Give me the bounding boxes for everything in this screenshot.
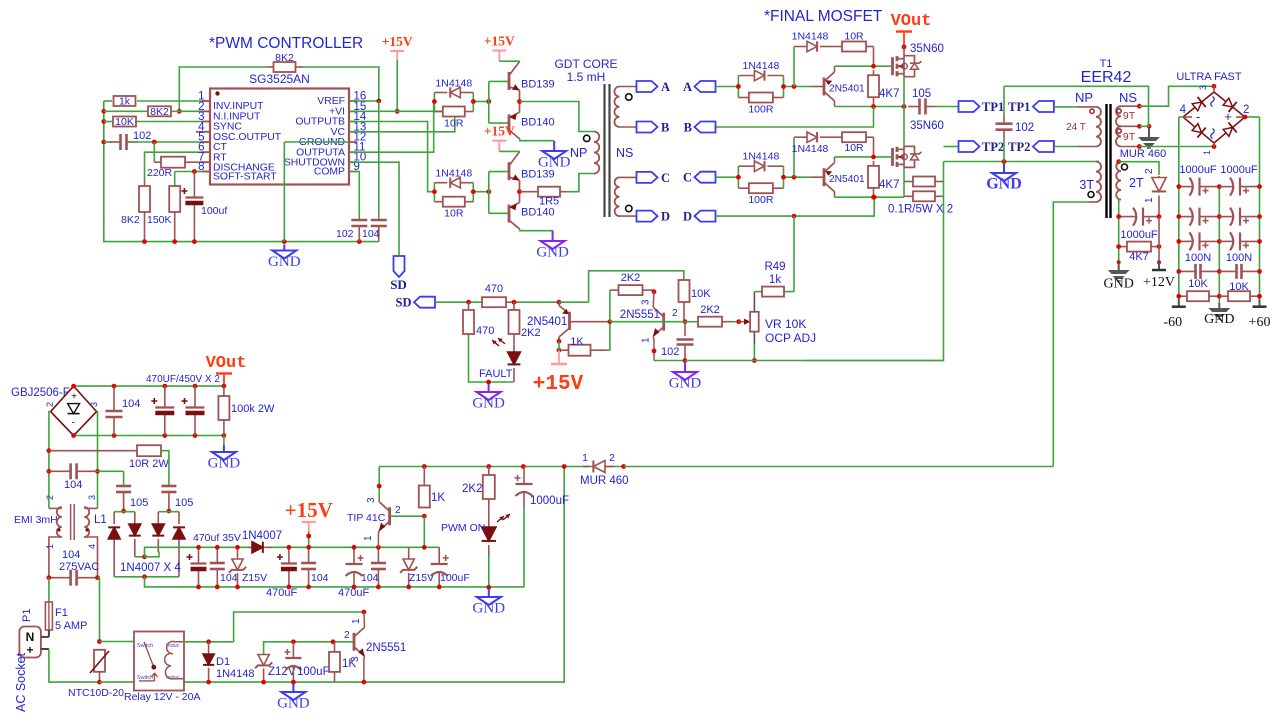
capacitor 470uF aux2 [288, 547, 290, 563]
svg-text:BD140: BD140 [521, 207, 555, 219]
svg-text:1N4007: 1N4007 [242, 530, 282, 542]
wire 2N5401 ocp collector stub [558, 337, 560, 341]
svg-text:NP: NP [1075, 90, 1093, 105]
resistor 1K reg [423, 467, 425, 486]
resistor 10R driver [434, 111, 442, 113]
wire sense right rail [806, 162, 944, 361]
capacitor 104 emi [49, 470, 71, 472]
resistor 220R [154, 161, 161, 163]
svg-text:+12V: +12V [1143, 275, 1175, 290]
wire pin6 RT to 8K2 [145, 152, 211, 180]
svg-text:B: B [661, 121, 669, 135]
winding NP 24T [1096, 107, 1101, 147]
wire pin2 feedback from 8K2 [179, 67, 266, 111]
svg-text:2: 2 [1144, 168, 1155, 174]
winding 2T [1116, 162, 1121, 200]
wire right rail [1259, 187, 1261, 307]
winding NS 9T upper [1116, 106, 1121, 126]
diode MUR 460 main [583, 466, 590, 468]
capacitor 100uf soft start [193, 172, 195, 198]
capacitor 470uF aux1 [198, 547, 200, 563]
svg-text:NP: NP [570, 146, 587, 160]
wire pin15 +VI [349, 110, 455, 112]
ground GND output [1218, 303, 1220, 308]
wire CT to 220R [153, 142, 155, 162]
svg-text:1.5 mH: 1.5 mH [567, 70, 606, 84]
svg-text:NTC10D-20: NTC10D-20 [68, 687, 124, 699]
wire 2N5401 base lead [570, 321, 610, 323]
transistor BD140 [508, 114, 511, 132]
wire 2N5551 emitter relay [363, 656, 366, 682]
resistor 2K2 vertical fault [513, 302, 515, 310]
wire TIP base lead [390, 515, 425, 517]
capacitor 102 CT [104, 141, 112, 143]
diode 1N4148 gate combo [738, 165, 754, 167]
diode D1 1N4148 [208, 642, 210, 654]
wire 10k node [685, 321, 698, 323]
resistor 10R gate [833, 46, 842, 48]
wire mid rail [1218, 187, 1220, 303]
svg-text:1: 1 [351, 618, 362, 624]
diode 1N4007 d1 [113, 512, 115, 524]
svg-text:VOut: VOut [206, 354, 247, 373]
wire NP top [520, 102, 595, 132]
wire 3T bottom [1089, 201, 1096, 203]
svg-text:2N5401: 2N5401 [829, 174, 865, 185]
relay coil [165, 641, 183, 678]
svg-text:2N5401: 2N5401 [829, 84, 865, 95]
svg-text:GND: GND [208, 456, 241, 472]
svg-text:1K: 1K [431, 492, 445, 504]
wire pin2 8K2 net [104, 110, 147, 112]
capacitor 104 aux1 [216, 547, 218, 563]
port D in [695, 211, 716, 222]
wire mur line [624, 466, 1054, 468]
wire SD to 470 [435, 301, 481, 303]
svg-text:100N: 100N [1226, 252, 1252, 264]
svg-text:FAULT: FAULT [479, 368, 513, 380]
transistor 2N5401 [824, 72, 835, 101]
svg-text:P1: P1 [21, 609, 33, 622]
svg-text:1: 1 [1144, 197, 1155, 203]
svg-text:1: 1 [45, 544, 55, 549]
svg-text:10R: 10R [444, 208, 464, 220]
svg-text:GND: GND [986, 176, 1022, 193]
terminal +60 [1259, 299, 1261, 307]
resistor 4K7 12V [1119, 246, 1127, 248]
resistor 4K7 [873, 161, 875, 166]
svg-text:24 T: 24 T [1066, 122, 1086, 133]
svg-text:104: 104 [220, 572, 238, 584]
wire raw to TIP collector [378, 467, 380, 499]
svg-text:104: 104 [64, 479, 82, 491]
wire gate branch riser [793, 47, 795, 87]
svg-text:Z12V: Z12V [268, 666, 296, 678]
bridge rectifier ultra fast [1183, 92, 1214, 117]
resistor 2K2 led [488, 467, 490, 476]
svg-text:3: 3 [1198, 85, 1208, 90]
svg-text:3: 3 [89, 402, 99, 407]
svg-text:102: 102 [661, 346, 679, 358]
wire NS bottom to bridge [1139, 146, 1214, 148]
fuse F1 [45, 602, 52, 630]
ground earth NS center [1148, 128, 1150, 137]
wire combo to base node [784, 176, 812, 178]
svg-text:100k 2W: 100k 2W [231, 403, 275, 415]
svg-text:TP1: TP1 [1008, 100, 1030, 114]
svg-text:8K2: 8K2 [275, 52, 294, 64]
svg-text:2N5551: 2N5551 [620, 309, 660, 321]
wire base to 2N5551 [610, 321, 664, 323]
svg-text:3: 3 [87, 495, 97, 500]
led PWM ON [488, 524, 490, 527]
svg-text:4: 4 [87, 544, 97, 549]
capacitor 1000uF row right [1219, 186, 1234, 188]
svg-text:VR 10K: VR 10K [765, 317, 806, 331]
port B in [695, 122, 716, 133]
svg-text:BD139: BD139 [521, 169, 555, 181]
svg-text:A: A [683, 80, 692, 94]
wire sd node to loop riser [559, 301, 589, 303]
svg-text:2: 2 [609, 452, 615, 464]
ground GND TP bold [1003, 164, 1005, 173]
ground GND upper driver [553, 141, 555, 151]
wire pin13 VC [349, 111, 455, 132]
svg-text:+15V: +15V [484, 124, 515, 139]
svg-text:4K7: 4K7 [1129, 251, 1149, 263]
combo 1N4148/100R frame [737, 166, 739, 188]
svg-text:-: - [72, 418, 75, 429]
wire 470 to 2N5401 node [514, 301, 559, 303]
wire 2T top to MUR460 [1119, 161, 1121, 163]
wire 10R to gate node [873, 137, 875, 157]
transistor TIP 41C [379, 502, 390, 531]
svg-text:10K: 10K [1188, 278, 1208, 290]
capacitor 105 coupling [908, 106, 920, 108]
ground GND reg [488, 589, 490, 597]
svg-text:4K7: 4K7 [879, 88, 899, 100]
resistor 2K2 upper ocp [610, 289, 619, 291]
svg-text:L1: L1 [94, 514, 107, 526]
svg-text:2: 2 [45, 495, 55, 500]
zener Z15V aux1 [237, 547, 239, 559]
wire 2N5551 collector [652, 292, 655, 307]
resistor 10R 2W [49, 450, 137, 452]
svg-text:105: 105 [912, 88, 931, 100]
transistor BD139 [508, 72, 511, 90]
winding NS lower GDT [615, 177, 620, 216]
port TP2 in [1033, 141, 1054, 152]
svg-text:10R: 10R [844, 142, 864, 154]
capacitor 104 hv [113, 386, 115, 411]
wire mosfet source [903, 77, 905, 107]
wire collector top loop [589, 271, 684, 302]
resistor 0.1R lower [904, 195, 913, 197]
thermistor NTC10D-20 [94, 650, 105, 672]
svg-text:4: 4 [1180, 104, 1187, 116]
port SD in ocp [414, 297, 435, 308]
svg-text:3: 3 [641, 299, 652, 305]
resistor 10K bleeder left [1179, 295, 1187, 297]
svg-text:D: D [661, 210, 670, 224]
svg-text:+15V: +15V [533, 373, 584, 396]
capacitor 102 ocp [684, 322, 686, 336]
svg-text:10R: 10R [844, 31, 864, 43]
wire B return riser [716, 107, 874, 128]
svg-text:10K: 10K [691, 288, 711, 300]
wire pin11 OUTPUTA to upper driver [349, 102, 434, 153]
wire raw rail top [379, 466, 623, 468]
wire combo to base node [784, 86, 812, 88]
wire pin16 VREF net [303, 67, 379, 101]
svg-text:SG3525AN: SG3525AN [249, 72, 310, 86]
svg-text:3T: 3T [1079, 178, 1094, 192]
capacitor 104 vref bypass [378, 101, 380, 220]
svg-text:102: 102 [1015, 122, 1034, 134]
wire left rail [1178, 187, 1180, 307]
wire base node z12v [264, 642, 354, 655]
wire 2N5401 emitter to gate line [834, 66, 836, 72]
ground GND hv [223, 436, 225, 446]
svg-text:2: 2 [45, 402, 55, 407]
node left rail dots [101, 109, 106, 114]
svg-text:GND: GND [669, 376, 702, 392]
diode 1N4148 driver [434, 92, 447, 94]
svg-text:C: C [661, 171, 670, 185]
resistor R49 [754, 291, 762, 293]
capacitor 1000uF row left [1179, 186, 1194, 188]
wire BD140 lower collector [520, 229, 553, 236]
wire driver bases [473, 191, 489, 193]
wire R49 right riser [785, 291, 794, 293]
wire 105a top [98, 470, 124, 472]
winding NS upper GDT [614, 87, 619, 128]
wire pin3 10K net [104, 121, 112, 123]
resistor 8K2 top feedback [266, 66, 274, 68]
wire left input rail [104, 101, 379, 242]
wire 2T bottom down [1119, 199, 1121, 201]
wire diode pair tops [114, 511, 123, 513]
port TP1 out [959, 101, 980, 112]
transformer core bars [1105, 104, 1107, 218]
wire aux plus net [135, 556, 145, 558]
resistor 8K2 vertical [144, 180, 146, 186]
resistor 150K vertical [174, 172, 176, 187]
svg-text:10R: 10R [444, 118, 464, 130]
wire relay coil to D1 [184, 641, 234, 643]
svg-text:470: 470 [485, 283, 503, 295]
svg-text:104: 104 [362, 228, 380, 240]
port SD shutdown output [394, 256, 405, 277]
wire TP1 in to NP [1055, 106, 1077, 108]
wire NS mid tap [1004, 86, 1149, 126]
port input [695, 172, 716, 183]
svg-text:10K: 10K [115, 116, 134, 128]
svg-text:GND: GND [472, 396, 505, 412]
svg-text:100R: 100R [748, 194, 774, 206]
svg-text:470uF: 470uF [266, 587, 297, 599]
wire 1K to node X [607, 322, 610, 351]
svg-text:NS: NS [616, 146, 633, 160]
wire gnd row TP [944, 161, 1100, 163]
svg-text:100N: 100N [1185, 252, 1211, 264]
transformer GDT core bars [603, 84, 605, 217]
svg-text:104: 104 [361, 572, 379, 584]
svg-text:GDT CORE: GDT CORE [554, 57, 617, 71]
svg-text:AC Socket: AC Socket [14, 652, 28, 712]
svg-text:100uF: 100uF [440, 572, 470, 584]
transistor 2N5401 ocp [568, 312, 571, 330]
wire hv top rail [73, 385, 75, 387]
svg-text:TP2: TP2 [1008, 140, 1030, 154]
capacitor 470UF 450V b [194, 386, 196, 407]
wire emi pins [49, 507, 62, 509]
wire pin1 1k net [104, 100, 112, 102]
wire nodeX up 2K2 [609, 290, 611, 322]
svg-text:COMP: COMP [314, 167, 345, 178]
svg-text:+: + [71, 392, 77, 403]
svg-text:MUR 460: MUR 460 [1120, 148, 1166, 160]
resistor 100k 2W bleeder [223, 386, 225, 396]
svg-text:-60: -60 [1163, 315, 1182, 330]
capacitor 100N right [1219, 270, 1236, 272]
wire pin10 SHUTDOWN to SD port [349, 162, 399, 256]
wire 2N5401 emitter to gate line [834, 157, 836, 163]
wire 2N5551 emitter [652, 336, 655, 360]
svg-text:MUR 460: MUR 460 [580, 475, 629, 487]
svg-text:D: D [683, 210, 692, 224]
port TP1 in [1033, 101, 1054, 112]
svg-text:1000uF: 1000uF [1220, 164, 1258, 176]
diode 1N4007 d3 [157, 512, 159, 524]
svg-text:102: 102 [336, 228, 354, 240]
resistor 10R gate [833, 136, 842, 138]
svg-text:-: - [1196, 109, 1200, 124]
wire 2N5551 collector relay [363, 612, 366, 627]
svg-text:102: 102 [133, 130, 151, 142]
winding 3T [1096, 161, 1099, 163]
svg-text:470UF/450V X 2: 470UF/450V X 2 [146, 374, 220, 385]
svg-text:2T: 2T [1129, 176, 1144, 190]
node 10K bottom [683, 319, 688, 324]
resistor 1K relay [334, 642, 336, 652]
svg-text:2N5401: 2N5401 [527, 316, 567, 328]
resistor 1K ocp [559, 349, 569, 351]
wire gate branch riser [793, 137, 795, 177]
svg-text:GND: GND [1204, 312, 1234, 327]
wire ocp ground rail full [685, 360, 944, 362]
resistor 470 horizontal [481, 301, 482, 303]
svg-text:5 AMP: 5 AMP [55, 620, 87, 632]
mosfet 35N60 [891, 148, 894, 166]
svg-text:B: B [684, 121, 692, 135]
svg-text:9T: 9T [1123, 110, 1136, 122]
capacitor 105 a [116, 485, 131, 488]
capacitor 1000uF row left [1179, 216, 1194, 218]
capacitor 1000uF row left [1179, 240, 1194, 242]
svg-text:100uf: 100uf [201, 205, 227, 217]
wire gate line [835, 65, 892, 67]
mosfet 35N60 [891, 57, 894, 75]
capacitor 100uF reg [438, 547, 440, 564]
wire collector feed [234, 612, 364, 642]
ac socket P1 [19, 627, 41, 658]
svg-text:2: 2 [395, 505, 401, 516]
svg-text:105: 105 [175, 497, 193, 509]
wire relay switch top [100, 641, 135, 643]
wire 2N5401 collector to rail [834, 101, 836, 107]
svg-text:220R: 220R [147, 167, 173, 179]
svg-text:*FINAL MOSFET: *FINAL MOSFET [764, 8, 883, 25]
combo 1N4148/100R frame [737, 76, 739, 98]
resistor 8K2 pin2 [148, 106, 171, 116]
svg-text:Relay 12V - 20A: Relay 12V - 20A [124, 691, 200, 703]
wire TIP collector lead [378, 498, 380, 502]
capacitor 470uF reg1 [353, 547, 355, 564]
wire hv bottom rail [73, 435, 75, 437]
ground GND 12V [1118, 263, 1120, 270]
transistor 2N5551 ocp [653, 307, 664, 336]
wire D row [716, 197, 875, 216]
svg-text:1R5: 1R5 [539, 196, 559, 208]
wire 105 to TP1 [935, 106, 958, 108]
svg-text:SD: SD [396, 296, 412, 310]
diode 1N4148 gate combo [738, 75, 754, 77]
svg-text:1000uF: 1000uF [1120, 229, 1158, 241]
svg-text:Z15V: Z15V [242, 572, 267, 584]
svg-text:1: 1 [582, 452, 588, 464]
diode MUR460 output [1158, 176, 1160, 178]
resistor 10K bleeder right [1219, 295, 1228, 297]
wire mosfet source [903, 167, 905, 197]
wire driver bases [473, 101, 489, 103]
svg-text:+: + [1224, 109, 1232, 124]
svg-text:2K2: 2K2 [462, 483, 482, 495]
resistor 10K ocp [683, 280, 685, 281]
resistor 2K2 lower ocp [697, 321, 699, 323]
led FAULT [513, 336, 515, 352]
svg-text:1: 1 [1202, 150, 1212, 155]
svg-text:275VAC: 275VAC [59, 561, 99, 573]
svg-text:ULTRA FAST: ULTRA FAST [1176, 71, 1241, 83]
wire bridge left to minus rail [1183, 116, 1192, 118]
ground GND pwm [283, 245, 285, 251]
svg-text:+60: +60 [1249, 315, 1271, 330]
wire source rail [835, 196, 905, 198]
wire emitters junction [519, 180, 521, 202]
svg-text:1N4148: 1N4148 [743, 60, 780, 72]
svg-text:1k: 1k [119, 96, 131, 108]
capacitor 100N left [1179, 270, 1196, 272]
ground GND lower driver purple [552, 231, 554, 241]
resistor 1k [114, 96, 136, 106]
svg-text:N: N [26, 630, 35, 644]
svg-text:104: 104 [62, 549, 80, 561]
wire bridge right down [96, 412, 99, 509]
ground GND ocp purple [684, 363, 686, 372]
svg-text:2: 2 [672, 308, 678, 319]
terminal +12V [1158, 262, 1160, 270]
diode 1N4007 series [248, 546, 252, 548]
transistor 2N5401 [824, 163, 835, 192]
svg-text:4K7: 4K7 [879, 179, 899, 191]
svg-text:35N60: 35N60 [910, 43, 944, 55]
svg-text:150K: 150K [147, 214, 172, 226]
svg-text:D1: D1 [216, 656, 230, 668]
wire TP2 stub [944, 146, 959, 148]
wire pin8 soft-start [194, 171, 210, 173]
svg-text:104: 104 [122, 398, 140, 410]
